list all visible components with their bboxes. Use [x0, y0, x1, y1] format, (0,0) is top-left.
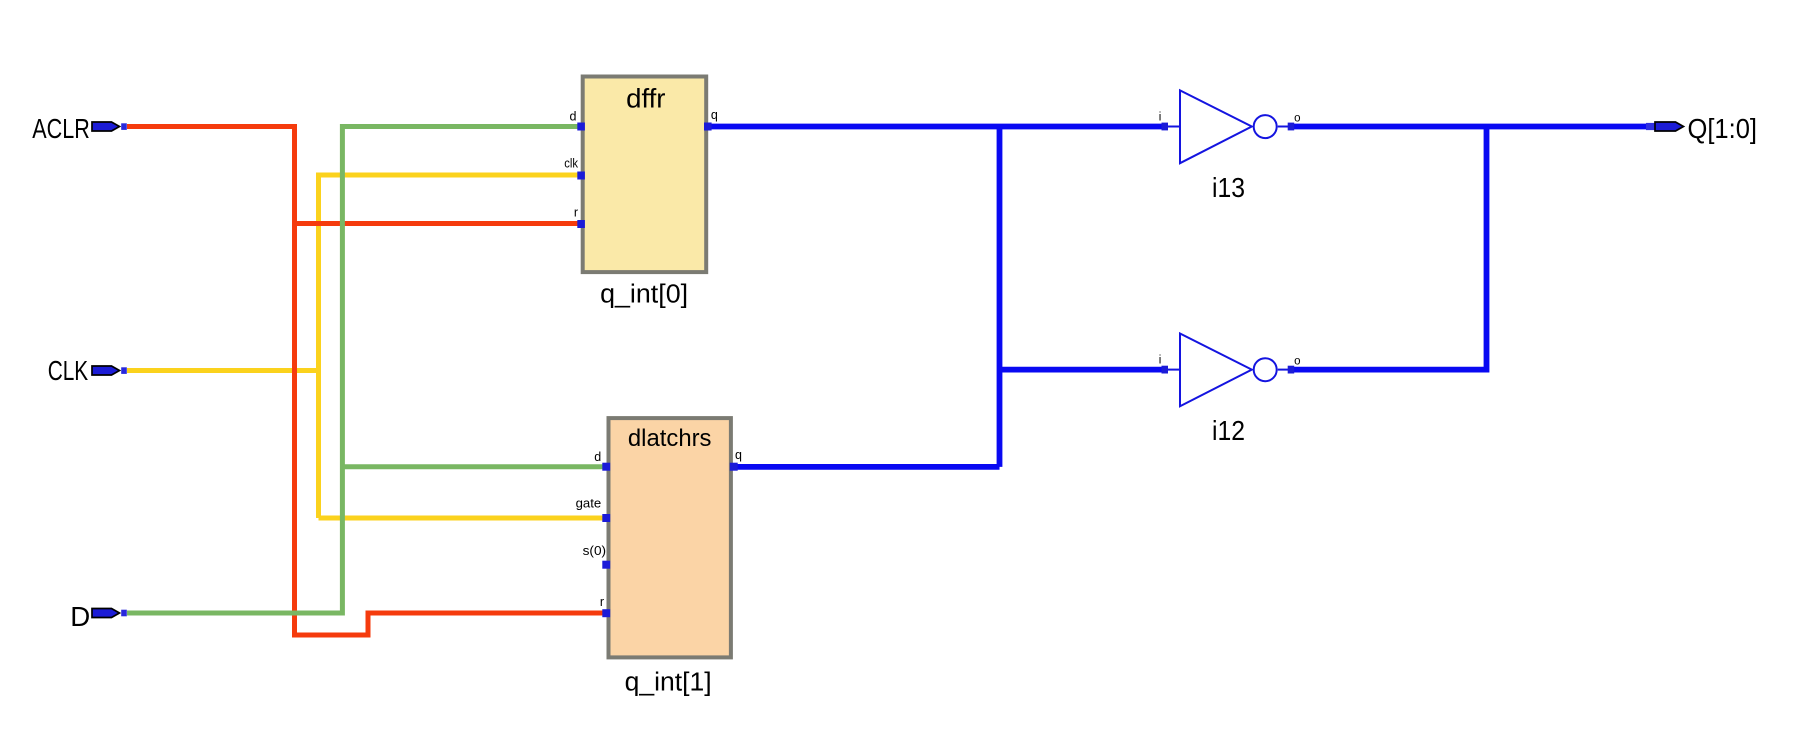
svg-text:CLK: CLK [48, 355, 89, 386]
svg-text:ACLR: ACLR [32, 113, 90, 144]
svg-text:q: q [735, 448, 742, 462]
svg-text:gate: gate [576, 497, 602, 511]
svg-text:i13: i13 [1212, 172, 1245, 203]
svg-text:r: r [574, 205, 578, 219]
svg-text:q: q [711, 108, 718, 122]
svg-text:r: r [600, 595, 604, 609]
svg-text:d: d [594, 450, 601, 464]
svg-text:Q[1:0]: Q[1:0] [1688, 113, 1758, 144]
svg-text:q_int[0]: q_int[0] [600, 281, 688, 309]
svg-text:D: D [70, 601, 90, 632]
svg-text:o: o [1294, 112, 1300, 124]
svg-text:q_int[1]: q_int[1] [625, 669, 712, 697]
svg-text:dffr: dffr [626, 83, 666, 113]
svg-text:i: i [1159, 112, 1162, 124]
svg-text:d: d [570, 109, 577, 123]
svg-text:s(0): s(0) [583, 544, 607, 558]
svg-text:i12: i12 [1212, 415, 1245, 446]
svg-text:clk: clk [564, 157, 578, 171]
svg-text:o: o [1294, 356, 1300, 368]
svg-text:i: i [1159, 355, 1162, 367]
svg-text:dlatchrs: dlatchrs [628, 425, 712, 452]
